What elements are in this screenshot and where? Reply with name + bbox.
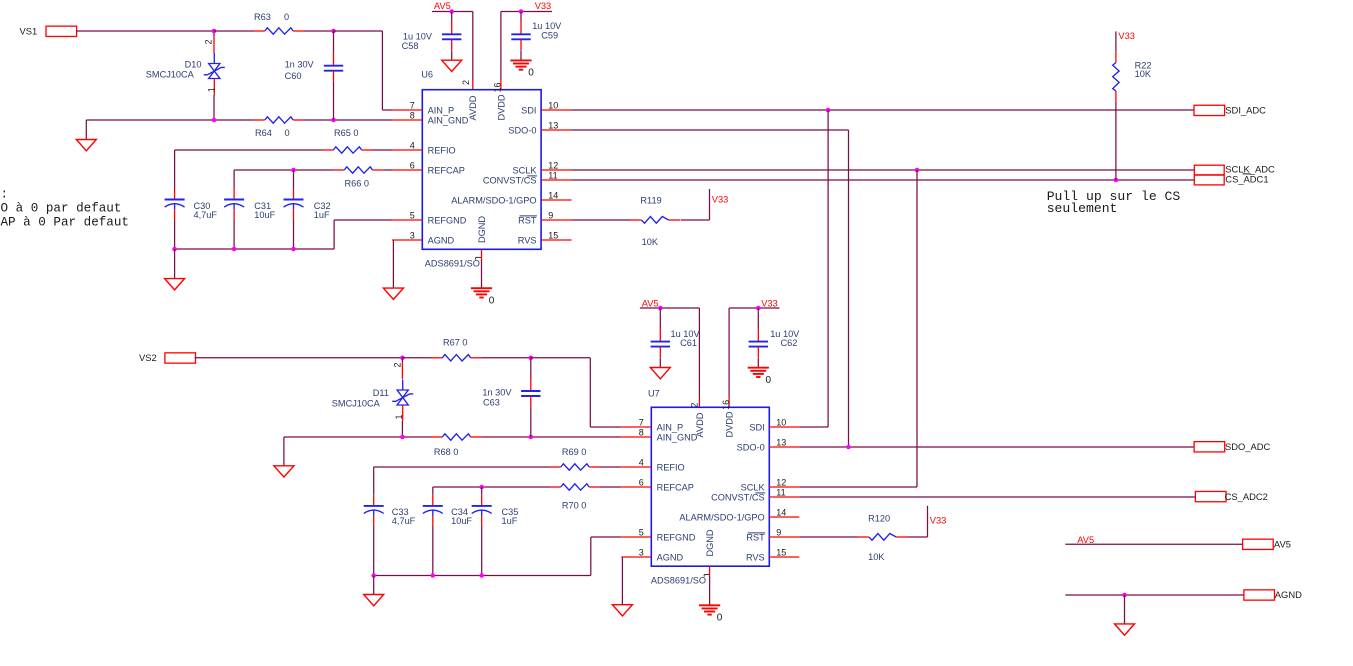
svg-text:15: 15	[548, 231, 558, 241]
svg-text:2: 2	[392, 362, 402, 367]
svg-text:0: 0	[717, 613, 723, 624]
svg-text:16: 16	[493, 83, 503, 93]
svg-text:10uF: 10uF	[254, 210, 275, 220]
svg-text:2: 2	[204, 39, 214, 44]
svg-text:C60: C60	[285, 71, 302, 81]
svg-text:D10: D10	[185, 60, 202, 70]
svg-text:CS_ADC2: CS_ADC2	[1225, 491, 1268, 502]
svg-text:1uF: 1uF	[502, 516, 518, 526]
svg-text:0: 0	[528, 68, 534, 79]
svg-text:V33: V33	[712, 194, 729, 204]
svg-text:2: 2	[689, 403, 699, 408]
svg-text:10: 10	[776, 418, 786, 428]
svg-text:AIN_P: AIN_P	[428, 105, 455, 115]
svg-text:8: 8	[410, 111, 415, 121]
svg-text:SDI: SDI	[749, 422, 764, 432]
svg-text:D11: D11	[373, 388, 389, 398]
svg-text:SDO-0: SDO-0	[508, 125, 536, 135]
svg-text:3: 3	[639, 548, 644, 558]
svg-text:RST: RST	[518, 215, 537, 225]
svg-text:CONVST/CS: CONVST/CS	[711, 492, 765, 502]
svg-text:C62: C62	[781, 338, 798, 348]
svg-text:R65 0: R65 0	[334, 128, 359, 138]
svg-text:AV5: AV5	[642, 298, 659, 308]
svg-text:REFIO: REFIO	[428, 145, 456, 155]
svg-text:10K: 10K	[868, 552, 885, 562]
svg-text:5: 5	[410, 211, 415, 221]
svg-text:REFIO: REFIO	[657, 462, 685, 472]
svg-text:R69 0: R69 0	[562, 447, 587, 457]
svg-text:R67 0: R67 0	[443, 338, 468, 348]
svg-text:5: 5	[639, 528, 644, 538]
svg-text:C59: C59	[541, 30, 558, 40]
svg-text:R66 0: R66 0	[345, 178, 370, 188]
svg-text:9: 9	[776, 528, 781, 538]
svg-text:V33: V33	[930, 515, 947, 525]
svg-text:V33: V33	[1118, 31, 1135, 41]
svg-text:VS1: VS1	[20, 26, 38, 37]
svg-text:RVS: RVS	[518, 235, 537, 245]
svg-text:12: 12	[548, 161, 558, 171]
svg-text:0: 0	[284, 12, 289, 22]
svg-text:ADS8691/SO: ADS8691/SO	[425, 259, 480, 269]
svg-text:12: 12	[776, 478, 786, 488]
svg-text:AVDD: AVDD	[468, 95, 478, 120]
svg-text:SDI: SDI	[521, 105, 536, 115]
svg-text:SDO-0: SDO-0	[737, 442, 765, 452]
svg-text:AIN_GND: AIN_GND	[428, 115, 469, 125]
svg-text:C61: C61	[680, 338, 697, 348]
svg-text:AGND: AGND	[428, 235, 455, 245]
svg-text:U7: U7	[648, 388, 660, 398]
svg-text:4,7uF: 4,7uF	[392, 516, 416, 526]
svg-text:VS2: VS2	[139, 352, 157, 363]
svg-text:4,7uF: 4,7uF	[194, 210, 218, 220]
svg-text:3: 3	[410, 231, 415, 241]
svg-text:1: 1	[207, 87, 217, 92]
svg-text:SCLK: SCLK	[741, 482, 766, 492]
svg-text:DGND: DGND	[705, 529, 715, 556]
svg-text:seulement: seulement	[1047, 201, 1118, 216]
svg-text:10K: 10K	[1135, 69, 1152, 79]
svg-text:15: 15	[776, 548, 786, 558]
svg-text:AIN_GND: AIN_GND	[657, 432, 698, 442]
svg-text:0: 0	[285, 128, 290, 138]
svg-text:V33: V33	[761, 298, 778, 308]
svg-text:R120: R120	[868, 513, 890, 523]
svg-text:REFGND: REFGND	[657, 532, 696, 542]
svg-text:ALARM/SDO-1/GPO: ALARM/SDO-1/GPO	[451, 195, 536, 205]
svg-text:AP à 0 Par defaut: AP à 0 Par defaut	[1, 215, 129, 229]
svg-text:R119: R119	[640, 195, 661, 205]
svg-text:AV5: AV5	[434, 1, 451, 11]
svg-text:REFGND: REFGND	[428, 215, 467, 225]
svg-text:ADS8691/SO: ADS8691/SO	[651, 576, 706, 586]
svg-text:O à 0 par defaut: O à 0 par defaut	[1, 202, 122, 216]
svg-text:10: 10	[548, 101, 558, 111]
svg-text:R64: R64	[255, 128, 272, 138]
svg-text:REFCAP: REFCAP	[428, 165, 465, 175]
svg-text:R68 0: R68 0	[434, 447, 459, 457]
svg-text:7: 7	[639, 418, 644, 428]
svg-text:AGND: AGND	[657, 552, 684, 562]
svg-text:SCLK: SCLK	[512, 165, 537, 175]
svg-text:R70 0: R70 0	[562, 501, 587, 511]
svg-text:AGND: AGND	[1275, 589, 1302, 600]
svg-text:SDO_ADC: SDO_ADC	[1225, 441, 1271, 452]
svg-text:1uF: 1uF	[314, 210, 330, 220]
svg-text:DVDD: DVDD	[725, 411, 735, 437]
svg-text:6: 6	[410, 161, 415, 171]
svg-text:4: 4	[639, 458, 644, 468]
svg-text:C58: C58	[402, 41, 419, 51]
svg-text:U6: U6	[421, 70, 433, 80]
svg-text:AV5: AV5	[1077, 535, 1094, 545]
svg-text:RST: RST	[746, 532, 765, 542]
svg-text:14: 14	[776, 508, 786, 518]
svg-text:14: 14	[548, 191, 558, 201]
svg-text:13: 13	[548, 121, 558, 131]
svg-text:11: 11	[776, 488, 785, 498]
svg-text:SMCJ10CA: SMCJ10CA	[146, 70, 195, 80]
svg-text:AVDD: AVDD	[695, 412, 705, 437]
svg-text:DVDD: DVDD	[496, 94, 506, 120]
svg-text:REFCAP: REFCAP	[657, 482, 694, 492]
svg-text:16: 16	[721, 400, 731, 410]
svg-text:11: 11	[548, 171, 557, 181]
svg-text:10K: 10K	[642, 237, 659, 247]
svg-text:13: 13	[776, 438, 786, 448]
svg-text:9: 9	[548, 211, 553, 221]
svg-text:6: 6	[639, 478, 644, 488]
svg-text:1n 30V: 1n 30V	[482, 388, 512, 398]
svg-text:SMCJ10CA: SMCJ10CA	[332, 399, 381, 409]
svg-text:1: 1	[394, 414, 404, 419]
svg-text:8: 8	[639, 428, 644, 438]
svg-text:AV5: AV5	[1274, 539, 1291, 550]
svg-text:AIN_P: AIN_P	[657, 422, 684, 432]
svg-text:10uF: 10uF	[451, 516, 472, 526]
svg-text:SDI_ADC: SDI_ADC	[1225, 105, 1266, 116]
svg-text::: :	[1, 188, 9, 202]
svg-text:R63: R63	[254, 12, 271, 22]
svg-text:ALARM/SDO-1/GPO: ALARM/SDO-1/GPO	[679, 512, 764, 522]
svg-text:V33: V33	[535, 1, 552, 11]
svg-text:0: 0	[766, 375, 772, 386]
svg-text:4: 4	[410, 141, 415, 151]
svg-text:7: 7	[410, 101, 415, 111]
svg-text:RVS: RVS	[746, 552, 765, 562]
svg-text:CS_ADC1: CS_ADC1	[1225, 173, 1268, 184]
svg-text:2: 2	[461, 80, 471, 85]
svg-text:CONVST/CS: CONVST/CS	[483, 175, 537, 185]
svg-text:DGND: DGND	[477, 216, 487, 243]
svg-text:0: 0	[489, 295, 495, 306]
svg-text:C63: C63	[483, 398, 500, 408]
svg-text:1n 30V: 1n 30V	[285, 60, 315, 70]
